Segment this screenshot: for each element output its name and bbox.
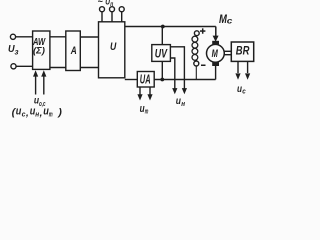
svg-text:т: т xyxy=(49,109,53,118)
svg-text:M: M xyxy=(212,48,219,60)
svg-text:т: т xyxy=(145,107,149,116)
svg-text:U: U xyxy=(110,41,117,53)
svg-text:BR: BR xyxy=(236,44,250,58)
svg-text:с: с xyxy=(242,89,246,96)
svg-text:,: , xyxy=(25,108,29,119)
svg-text:A: A xyxy=(70,45,77,57)
svg-text:н: н xyxy=(181,99,185,108)
svg-text:(Σ): (Σ) xyxy=(33,45,45,55)
svg-text:UA: UA xyxy=(140,73,151,87)
svg-text:~: ~ xyxy=(98,0,104,7)
svg-text:з: з xyxy=(15,47,19,56)
svg-text:,: , xyxy=(39,108,43,119)
svg-text:c: c xyxy=(227,15,233,25)
svg-text:): ) xyxy=(57,108,62,119)
svg-text:п: п xyxy=(110,1,113,8)
svg-text:UV: UV xyxy=(155,46,168,60)
